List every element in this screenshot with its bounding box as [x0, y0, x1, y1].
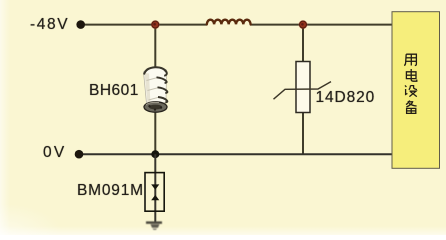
coil body [144, 67, 167, 106]
char 电 [406, 69, 416, 81]
label 0V [43, 145, 66, 161]
wire: 0V junction down through BM091M to ground [154, 154, 156, 222]
char 备 [406, 100, 417, 113]
varistor strike line [274, 82, 332, 100]
coil body left shading [145, 73, 151, 105]
junction dot J1 (red) [151, 20, 160, 29]
junction dot (black) on 0V rail [151, 150, 159, 158]
terminal dot -48V [76, 20, 85, 29]
char 用 [404, 54, 416, 65]
char 设 [405, 85, 417, 96]
ground symbol [146, 223, 162, 230]
TVS up diode [151, 195, 159, 200]
wire: -48V rail right segment [250, 24, 392, 26]
wire: varistor bottom to 0V rail [302, 112, 304, 154]
wire: vertical from right junction to varistor [302, 25, 304, 62]
wire: vertical from top junction to BH601 [154, 25, 156, 68]
inductor L1 on -48V rail [207, 20, 251, 25]
junction dot J2 (red) [299, 20, 308, 29]
coil bottom cap [144, 102, 167, 112]
varistor 14D820 body [296, 62, 310, 113]
winding hook 3 [158, 97, 167, 102]
label BM091M [77, 183, 144, 199]
top loop arc [144, 67, 167, 76]
label 14D820 [316, 90, 376, 106]
label -48V [30, 17, 69, 33]
label BH601 [89, 83, 139, 99]
surge arrester BH601 (3D coil drawing) [144, 67, 168, 112]
TVS down diode [151, 184, 159, 189]
terminal dot 0V [75, 150, 84, 159]
TVS BM091M box [145, 173, 164, 212]
winding back line 2 [148, 88, 159, 91]
wire: BH601 bottom to 0V junction [154, 110, 156, 154]
winding hook 2 [158, 87, 168, 93]
load box (用电设备) [392, 12, 440, 169]
wire: -48V rail left segment [81, 24, 207, 26]
winding back line 1 [147, 78, 158, 81]
wire: 0V rail [80, 153, 392, 155]
winding back line 3 [149, 97, 159, 100]
winding hook 1 [157, 77, 167, 83]
